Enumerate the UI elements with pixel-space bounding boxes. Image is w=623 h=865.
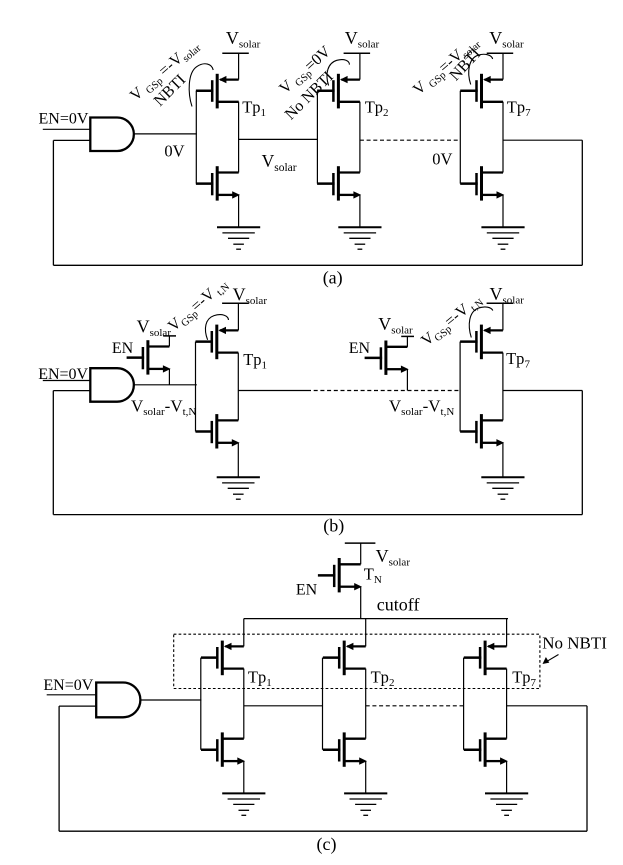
NMOS M7 stage7 (fig b) [460,414,504,448]
stress arc Tp7 (fig b) [469,307,493,338]
wire gate vertical stage7 (fig a) [459,91,461,184]
svg-text:EN=0V: EN=0V [43,677,93,694]
wire NMOS source to ground stage1 (fig c) [243,761,245,793]
svg-text:EN: EN [112,340,134,357]
power rail V_solar Tp2 (fig a) [344,52,371,54]
svg-text:(c): (c) [317,834,337,855]
wire gate vertical stage1 (fig b) [195,342,197,432]
power rail V_solar Tp7 (fig a) [487,52,514,54]
ground stage2 (fig c) [344,793,387,815]
wire Tp2 drain to NMOS drain (fig a) [359,102,361,173]
wire feedback right vertical (fig c) [586,706,588,831]
wire gate vertical stage2 (fig a) [316,91,318,183]
dashed box No NBTI region (fig c) [174,634,540,688]
transistor T_N cutoff NMOS (fig c) [318,558,362,592]
transistor Tp7 PMOS (fig b) [460,325,503,360]
wire stage1 output (fig b) [238,390,307,392]
power rail V_solar Tp7 (fig b) [487,302,513,304]
wire NMOS source to ground stage2 (fig c) [365,761,367,793]
power rail V_solar EN1 (fig b) [163,335,176,337]
wire rail to EN2 drain (fig b) [406,336,408,347]
wire feedback right vertical (fig a) [581,140,583,265]
wire rail to Tp1 source (fig a) [238,53,240,79]
wire stage7 output (fig c) [507,705,587,707]
wire Tp1 drain to NMOS drain (fig c) [243,669,245,739]
wire Tp1 drain to NMOS drain (fig a) [238,102,240,173]
wire NMOS source to ground stage2 (fig a) [359,195,361,227]
wire gate vertical stage7 (fig c) [463,658,465,750]
ground stage1 (fig b) [217,477,260,499]
wire feedback input (fig a) [53,139,90,141]
transistor Tp1 PMOS (fig c) [201,641,244,676]
transistor EN1 pass NMOS (fig b) [127,340,171,374]
svg-text:0V: 0V [432,150,452,169]
wire feedback left vertical (fig c) [58,706,60,831]
stress arc NBTI Tp7 (fig a) [469,54,493,84]
wire feedback bottom (fig c) [59,830,587,832]
NMOS M1 stage1 (fig b) [196,414,240,448]
wire NMOS source to ground stage7 (fig b) [502,443,504,478]
svg-text:EN: EN [296,581,318,598]
ground stage7 (fig c) [485,793,528,815]
wire NMOS source to ground stage7 (fig a) [502,195,504,227]
ground stage7 (fig a) [481,227,524,249]
NMOS M7 stage7 (fig a) [460,166,504,200]
svg-text:EN: EN [349,340,371,357]
wire cutoff to Tp7 source (fig c) [506,619,508,647]
transistor Tp7 PMOS (fig c) [464,641,507,676]
wire T_N source to cutoff node (fig c) [360,587,362,619]
svg-text:No NBTI: No NBTI [542,634,607,653]
wire feedback left vertical (fig a) [52,140,54,265]
wire gate vertical stage7 (fig b) [459,342,461,432]
wire Tp2 drain to NMOS drain (fig c) [365,669,367,739]
ground stage7 (fig b) [481,477,524,499]
transistor Tp7 PMOS (fig a) [460,74,503,109]
wire EN1 source down to gate node (fig b) [168,369,170,385]
wire stage7 output (fig b) [503,390,582,392]
wire feedback right vertical (fig b) [581,391,583,515]
wire EN input (fig c) [47,694,96,696]
wire rail to EN1 drain (fig b) [168,336,170,347]
ground stage1 (fig c) [222,793,265,815]
NMOS M1 stage1 (fig a) [196,166,240,200]
wire feedback input (fig c) [59,705,96,707]
dashed wire omitted stages (fig c) [366,705,464,707]
stress arc Tp2 (fig a) [327,60,349,86]
power rail V_solar (fig c) [345,542,376,544]
wire cutoff distribution (fig c) [244,618,508,620]
wire EN input (fig a) [43,128,91,130]
wire rail to Tp7 source (fig b) [502,303,504,330]
transistor EN2 pass NMOS (fig b) [365,341,409,375]
wire cutoff to Tp1 source (fig c) [243,619,245,647]
AND gate U2 (fig b) [90,368,134,402]
transistor Tp2 PMOS (fig a) [317,74,360,109]
wire feedback left vertical (fig b) [52,391,54,515]
wire Tp7 drain to NMOS drain (fig c) [506,669,508,739]
wire AND output (fig b) [134,384,197,386]
ground stage2 (fig a) [338,227,381,249]
arrow pointer No NBTI (fig c) [546,655,559,663]
wire NMOS source to ground stage7 (fig c) [506,761,508,793]
wire Tp1 drain to NMOS drain (fig b) [237,353,239,421]
wire feedback input (fig b) [53,390,90,392]
wire EN input (fig b) [43,380,91,382]
transistor Tp1 PMOS (fig b) [196,325,239,360]
svg-text:0V: 0V [164,142,184,161]
power rail V_solar Tp1 (fig b) [222,302,249,304]
svg-text:(a): (a) [323,267,343,288]
wire feedback bottom (fig b) [53,514,582,516]
wire feedback bottom (fig a) [53,264,582,266]
wire rail to Tp2 source (fig a) [359,53,361,79]
dashed wire omitted stages (fig b) [307,390,461,392]
wire rail to T_N drain (fig c) [360,543,362,564]
wire stage1 output V_solar (fig a) [239,138,318,140]
stress arc Tp1 (fig b) [205,315,228,340]
dashed wire omitted stages (fig a) [360,139,460,141]
AND gate U1 (fig a) [90,118,134,152]
wire rail to Tp1 source (fig b) [237,303,239,330]
wire AND output to node 0V (fig a) [134,133,197,135]
wire cutoff to Tp2 source (fig c) [365,619,367,647]
svg-text:(b): (b) [323,516,344,537]
wire Tp7 drain to NMOS drain (fig a) [502,102,504,173]
stress arc NBTI Tp1 (fig a) [189,64,213,107]
wire NMOS source to ground stage1 (fig b) [237,443,239,478]
NMOS M2 stage2 (fig c) [323,732,367,766]
NMOS M1 stage1 (fig c) [201,732,245,766]
wire AND output (fig c) [140,699,201,701]
wire gate vertical stage1 (fig a) [195,91,197,184]
wire gate vertical stage1 (fig c) [200,658,202,750]
svg-text:cutoff: cutoff [377,595,420,615]
wire NMOS source to ground stage1 (fig a) [238,195,240,227]
NMOS M7 stage7 (fig c) [464,732,508,766]
wire gate vertical stage2 (fig c) [322,658,324,750]
transistor Tp2 PMOS (fig c) [323,641,366,676]
wire EN2 source down to gate node (fig b) [406,369,408,390]
ground stage1 (fig a) [217,227,260,249]
wire stage7 output (fig a) [503,139,582,141]
power rail V_solar Tp1 (fig a) [222,52,249,54]
wire stage1 output (fig c) [244,705,323,707]
AND gate U3 (fig c) [96,683,140,718]
wire rail to Tp7 source (fig a) [502,53,504,79]
NMOS M2 stage2 (fig a) [317,166,361,200]
transistor Tp1 PMOS (fig a) [196,74,239,109]
wire Tp7 drain to NMOS drain (fig b) [502,353,504,421]
power rail V_solar EN2 (fig b) [401,335,414,337]
svg-text:EN=0V: EN=0V [39,111,89,128]
